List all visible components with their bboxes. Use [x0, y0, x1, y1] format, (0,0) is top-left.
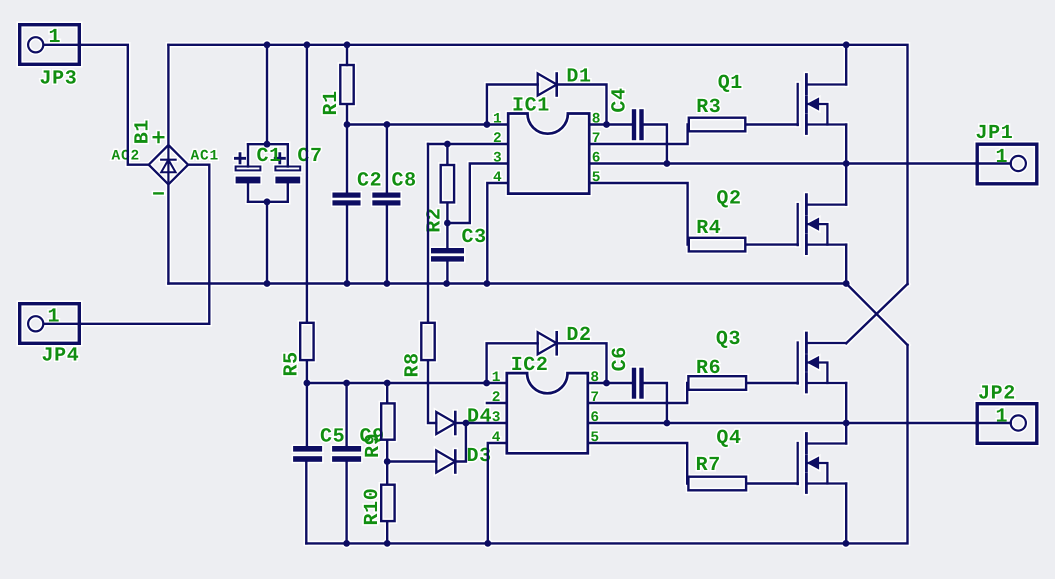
svg-text:1: 1	[996, 146, 1009, 169]
capacitor C2 bottom plate	[332, 200, 360, 205]
diode D1 cathode bar	[555, 74, 558, 96]
capacitor C2 top plate	[332, 193, 360, 198]
transistor Q1 source wire	[807, 123, 846, 125]
transistor Q4 source wire	[807, 482, 846, 484]
capacitor C4 left plate	[632, 109, 636, 140]
wire IC1 pin 6 / output to JP1	[589, 162, 1011, 164]
svg-text:Q1: Q1	[718, 72, 743, 95]
wire B1 plus to V+ rail	[167, 45, 169, 145]
wire IC2 pin 4 to bottom rail	[488, 443, 507, 543]
resistor R3 (horizontal body)	[689, 118, 746, 132]
diode D3 cathode bar	[454, 451, 457, 473]
junction	[603, 121, 610, 128]
wire C7 top leg	[287, 144, 289, 166]
resistor R5 (vertical body)	[300, 323, 313, 360]
resistor R2 (vertical body)	[441, 165, 454, 202]
wire C9 top leg	[345, 383, 347, 446]
wire VCC2 bus to IC2 pin 1	[307, 382, 507, 384]
junction	[384, 380, 391, 387]
junction	[843, 280, 850, 287]
wire C9 to bottom rail	[345, 462, 347, 544]
svg-text:JP3: JP3	[40, 68, 78, 91]
svg-text:C7: C7	[297, 145, 322, 168]
svg-text:AC2: AC2	[112, 149, 141, 165]
capacitor C1 bottom plate	[236, 177, 261, 184]
transistor Q3 gate plate	[797, 343, 799, 384]
junction	[264, 41, 271, 48]
junction	[264, 198, 271, 205]
svg-text:R6: R6	[696, 357, 721, 380]
wire D3 cathode up to pin3 node	[455, 423, 466, 462]
diode D4 cathode bar	[454, 412, 457, 434]
wire C5 to bottom rail	[305, 462, 307, 544]
wire C5 top leg	[306, 383, 308, 446]
resistor R8 (vertical body)	[421, 323, 434, 360]
resistor R9 (vertical body)	[381, 403, 394, 439]
junction	[304, 41, 311, 48]
resistor R1 (vertical body)	[340, 65, 353, 104]
svg-text:C2: C2	[357, 170, 382, 193]
wire Q1 source to output	[845, 125, 847, 164]
svg-text:C5: C5	[320, 425, 345, 448]
junction	[264, 141, 271, 148]
wire B1 minus down	[167, 184, 169, 283]
wire IC2 pin 8 to C6	[588, 382, 632, 384]
junction	[264, 280, 271, 287]
wire Q1 drain to V+	[845, 45, 847, 85]
junction	[384, 540, 391, 547]
svg-text:IC2: IC2	[511, 354, 549, 377]
capacitor C7 bottom plate	[275, 177, 300, 184]
svg-text:R10: R10	[361, 488, 384, 526]
transistor Q3 drain wire	[807, 342, 846, 344]
transistor Q3 bulk tie	[808, 363, 828, 384]
transistor Q1 channel	[805, 75, 808, 134]
wire IC1 pin 4 to GND	[487, 183, 508, 284]
resistor R7 (horizontal body)	[688, 477, 746, 491]
svg-text:D1: D1	[566, 66, 591, 89]
svg-text:R3: R3	[696, 96, 721, 119]
wire IC2 pin 7 to R6	[588, 383, 687, 403]
svg-text:JP2: JP2	[978, 382, 1016, 405]
B1 inner diode triangle	[161, 160, 175, 173]
wire R1 to node VCC1	[346, 105, 348, 124]
svg-text:R1: R1	[320, 90, 343, 115]
svg-text:1: 1	[996, 405, 1009, 428]
connector JP4 pin circle	[28, 316, 43, 331]
wire divider to R10	[386, 462, 388, 485]
junction	[443, 280, 450, 287]
wire C7 bottom leg	[287, 183, 289, 201]
wire C3 top leg	[446, 223, 448, 248]
junction	[444, 141, 451, 148]
capacitor C8 bottom plate	[372, 200, 400, 205]
wire IC1 pin 5 to R4	[589, 183, 687, 245]
svg-text:C6: C6	[609, 346, 632, 371]
driver IC2 body	[507, 373, 588, 453]
wire R2 top leg	[446, 144, 448, 164]
wire pin2 column down to R8	[427, 144, 429, 323]
svg-text:JP1: JP1	[976, 122, 1014, 145]
wire IC1 pin 8 to C4	[589, 123, 632, 125]
junction	[603, 380, 610, 387]
junction	[344, 121, 351, 128]
junction	[664, 420, 671, 427]
diode D1 triangle	[538, 74, 557, 96]
diode D2 triangle	[538, 332, 557, 354]
wire R8 to D4 anode	[428, 361, 436, 423]
transistor Q3 channel	[805, 333, 808, 392]
svg-text:B1: B1	[132, 119, 155, 144]
wire GND2 down and bottom rail	[306, 345, 907, 543]
wire C2 top leg	[346, 125, 348, 193]
transistor Q4 drain wire	[807, 442, 846, 444]
transistor Q1 bulk tie	[808, 104, 828, 125]
connector JP2 pin circle	[1011, 415, 1026, 430]
junction	[843, 41, 850, 48]
wire IC1 pin 3 to C3 node	[447, 164, 508, 224]
wire IC1 pin 7 to R3	[589, 125, 687, 145]
transistor Q2 bulk tie	[808, 224, 828, 245]
junction	[344, 41, 351, 48]
transistor Q1 drain wire	[807, 83, 846, 85]
junction	[343, 540, 350, 547]
wire V+ to C1/C7 top	[266, 45, 268, 144]
capacitor C6 right plate	[639, 368, 643, 399]
wire V+ to R5	[306, 45, 308, 323]
junction	[384, 121, 391, 128]
svg-text:R7: R7	[696, 454, 721, 477]
connector JP3 pin circle	[28, 37, 43, 52]
resistor R4 (horizontal body)	[689, 238, 746, 252]
svg-text:Q4: Q4	[716, 427, 741, 450]
capacitor C4 right plate	[639, 109, 643, 140]
wire R6 to Q3 gate	[747, 382, 797, 384]
connector JP1 box	[977, 144, 1037, 184]
junction	[843, 540, 850, 547]
connector JP3 box	[20, 25, 80, 65]
capacitor C5 top plate	[293, 446, 322, 452]
B1 plus mark	[154, 132, 164, 142]
wire IC2 pin 2 stub	[487, 402, 507, 404]
svg-text:R5: R5	[281, 351, 304, 376]
svg-text:Q2: Q2	[716, 188, 741, 211]
junction R9/R10/D3	[384, 458, 391, 465]
wire R9 to divider node	[386, 441, 388, 462]
capacitor C5 bottom plate	[293, 456, 322, 462]
wire R4 to Q2 gate	[747, 243, 798, 245]
wire pin3 node to IC2 pin 3	[466, 422, 507, 424]
driver IC1 body	[508, 114, 589, 194]
transistor Q3 source wire	[807, 382, 846, 384]
transistor Q1 arrow	[808, 98, 819, 110]
connector JP1 pin circle	[1011, 156, 1026, 171]
wire R5 to VCC2 bus	[306, 361, 308, 383]
junction	[843, 160, 850, 167]
junction	[484, 121, 491, 128]
diode D4 triangle	[436, 412, 455, 434]
svg-text:D4: D4	[467, 405, 492, 428]
svg-text:IC1: IC1	[512, 95, 550, 118]
wire C1 bottom leg	[247, 183, 249, 201]
svg-text:R4: R4	[696, 217, 721, 240]
wire pin1 to D1 anode	[487, 85, 538, 125]
wire C8 to GND	[386, 206, 388, 284]
svg-text:AC1: AC1	[191, 149, 220, 165]
svg-text:JP4: JP4	[42, 345, 80, 368]
svg-text:C8: C8	[392, 170, 417, 193]
junction	[664, 160, 671, 167]
resistor R6 (horizontal body)	[688, 376, 746, 390]
svg-text:D2: D2	[566, 324, 591, 347]
wire R7 to Q4 gate	[747, 482, 797, 484]
junction	[384, 280, 391, 287]
capacitor C6 left plate	[632, 368, 636, 399]
junction	[843, 420, 850, 427]
svg-text:C3: C3	[462, 226, 487, 249]
capacitor C8 top plate	[372, 193, 400, 198]
wire C6 to VS2 node	[644, 383, 667, 423]
capacitor C9 top plate	[332, 446, 361, 452]
B1 inner diode bars	[161, 148, 175, 182]
wire GND rail	[168, 282, 846, 284]
wire D1 cathode to pin 8	[557, 85, 607, 125]
svg-text:1: 1	[493, 111, 503, 127]
B1 minus mark	[154, 192, 162, 194]
wire R2 to C3 node	[446, 204, 448, 223]
transistor Q4 arrow	[808, 457, 819, 469]
wire Q4 source to bottom rail	[845, 484, 847, 544]
junction	[483, 380, 490, 387]
diode D3 triangle	[436, 451, 455, 473]
wire IC2 pin1 to D2 anode	[487, 343, 538, 383]
transistor Q2 drain wire	[807, 203, 846, 205]
svg-text:R9: R9	[362, 433, 385, 458]
svg-text:C1: C1	[257, 145, 282, 168]
capacitor C3 top plate	[431, 248, 464, 253]
resistor R10 (vertical body)	[381, 485, 394, 521]
svg-text:Q3: Q3	[716, 328, 741, 351]
junction	[344, 280, 351, 287]
wire D4 cathode to pin3 node	[455, 422, 466, 424]
transistor Q4 bulk tie	[808, 463, 828, 484]
junction	[484, 280, 491, 287]
transistor Q2 arrow	[808, 218, 819, 230]
capacitor C7 top plate (polarized)	[275, 167, 300, 171]
capacitor C9 bottom plate	[332, 456, 361, 462]
wire C1 top leg	[247, 144, 249, 166]
wire R3 to Q1 gate	[747, 123, 798, 125]
transistor Q4 channel	[805, 434, 808, 493]
wire IC2 pin 5 to R7	[588, 443, 687, 484]
transistor Q4 gate plate	[797, 443, 799, 484]
wire JP3 to B1 AC2	[44, 45, 148, 165]
wire D2 cathode to pin 8	[557, 343, 607, 383]
wire GND diagonal crossover	[846, 284, 907, 346]
transistor Q2 source wire	[807, 243, 846, 245]
wire C1/C7 to GND	[266, 202, 268, 284]
svg-text:1: 1	[492, 370, 502, 386]
wire C4 to VS node	[644, 125, 667, 164]
wire C1/C7 top bus	[248, 143, 288, 145]
wire Q2 drain to output	[845, 164, 847, 205]
connector JP4 box	[20, 304, 80, 344]
wire Q2 source to GND	[845, 245, 847, 284]
wire V+ top rail	[168, 45, 907, 284]
junction	[343, 380, 350, 387]
transistor Q2 channel	[805, 195, 808, 254]
wire divider to D3 anode	[387, 460, 436, 462]
wire V+ to R1	[346, 45, 348, 65]
wire VCC2 to R9	[386, 383, 388, 403]
wire B1 AC1 to JP4	[44, 165, 210, 324]
wire C8 top leg	[386, 125, 388, 193]
wire V+ diagonal crossover	[846, 284, 907, 343]
transistor Q2 gate plate	[797, 204, 799, 245]
transistor Q1 gate plate	[797, 84, 799, 125]
capacitor C7 plus mark	[275, 154, 284, 163]
wire IC1 pin 2 row	[428, 143, 508, 145]
capacitor C1 top plate (polarized)	[236, 167, 261, 171]
diode D2 cathode bar	[555, 332, 558, 354]
wire VCC1 row to IC1 pin 1	[347, 123, 508, 125]
junction	[304, 380, 311, 387]
junction D4/D3/pin3	[463, 420, 470, 427]
wire C3 to GND	[446, 262, 448, 284]
wire IC2 pin 6 / output to JP2	[588, 422, 1011, 424]
connector JP2 box	[977, 404, 1037, 444]
transistor Q3 arrow	[808, 357, 819, 369]
svg-text:R8: R8	[401, 352, 424, 377]
junction R2/C3	[444, 220, 451, 227]
bridge rectifier B1 diamond	[149, 145, 188, 184]
wire Q3 source to output	[845, 383, 847, 423]
junction	[484, 540, 491, 547]
svg-text:C4: C4	[609, 87, 632, 112]
wire R10 to bottom rail	[386, 522, 388, 543]
wire C2 to GND	[346, 206, 348, 284]
capacitor C1 plus mark	[235, 154, 244, 163]
capacitor C3 bottom plate	[431, 256, 464, 261]
wire Q4 drain to output	[845, 423, 847, 444]
wire C1/C7 bottom bus	[248, 201, 288, 203]
